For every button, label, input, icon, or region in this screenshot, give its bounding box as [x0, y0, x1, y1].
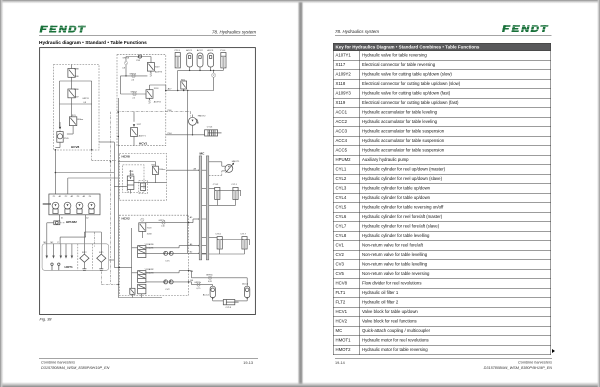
cylinder CYL6	[209, 233, 223, 249]
svg-text:ACC4: ACC4	[203, 293, 210, 296]
frame	[40, 48, 256, 315]
cylinder CYL1	[231, 184, 238, 199]
wire A6 line	[146, 245, 200, 248]
svg-text:2,5: 2,5	[132, 98, 136, 100]
valve RV1 relief	[67, 115, 84, 134]
svg-text:ACC2: ACC2	[197, 49, 204, 52]
svg-text:180bar: 180bar	[159, 169, 166, 171]
valve Y118 cartridge	[139, 218, 153, 238]
wire hcv8a ladder	[60, 77, 92, 104]
FENDT logo left	[39, 25, 89, 37]
motor HMOT1	[209, 161, 240, 175]
wire filter feeds	[84, 232, 114, 260]
svg-text:A109Y3: A109Y3	[155, 70, 163, 73]
svg-text:2,6: 2,6	[131, 80, 135, 82]
wire reel lift loop	[209, 190, 241, 205]
multicoupler MC	[190, 152, 209, 260]
orifice GRP1b 0,75	[194, 282, 201, 290]
wire reel foreaft loop	[209, 240, 250, 255]
filter FLT1	[97, 252, 106, 270]
svg-text:CYL7: CYL7	[240, 233, 246, 235]
filter FLT2	[80, 252, 89, 270]
tank HOT1	[42, 244, 109, 270]
valve Y186	[68, 65, 80, 78]
svg-text:CV1: CV1	[165, 260, 170, 262]
wire trunk P	[99, 142, 132, 267]
cylinder CYL8	[223, 300, 238, 310]
wire levelling loop	[212, 297, 249, 301]
wire AL7 line	[166, 90, 214, 91]
wire pump return	[60, 215, 86, 244]
svg-text:A109Y2: A109Y2	[154, 101, 162, 104]
svg-text:0,85: 0,85	[208, 281, 213, 283]
node A5	[188, 218, 200, 223]
svg-text:FLT1: FLT1	[99, 252, 104, 254]
node P04	[166, 133, 205, 135]
check valves CV2	[146, 280, 194, 291]
svg-text:A1: A1	[59, 195, 62, 198]
valve block HCV2	[119, 215, 188, 295]
flow arrow	[59, 127, 61, 130]
fitting under pump	[44, 215, 90, 244]
svg-text:AL7: AL7	[168, 88, 173, 91]
valve A107Y1	[131, 112, 147, 146]
check valves CV1	[146, 251, 200, 262]
cylinder CYL5	[205, 127, 222, 136]
svg-text:Y186: Y186	[74, 76, 80, 78]
accumulator ACC3	[208, 53, 214, 70]
key table	[333, 43, 551, 355]
svg-text:0,75: 0,75	[197, 288, 202, 290]
svg-text:X117: X117	[137, 124, 142, 126]
svg-text:P1: P1	[53, 196, 56, 198]
svg-text:HCV8: HCV8	[122, 155, 131, 159]
node P port	[119, 267, 121, 269]
valve RV3 relief	[152, 164, 166, 182]
svg-text:b1: b1	[61, 218, 64, 220]
orifice GRP on drop	[212, 70, 216, 90]
wire pilot drop	[101, 112, 118, 285]
svg-text:CYL8: CYL8	[226, 307, 232, 309]
pump unit HPUM2	[49, 194, 100, 224]
valve block HCV8 (left)	[54, 65, 100, 151]
node AL7	[165, 85, 172, 91]
cylinder CYL4	[221, 53, 226, 71]
svg-text:HOT1: HOT1	[65, 265, 74, 269]
orifice GRP18	[122, 57, 151, 76]
svg-text:Y118: Y118	[147, 227, 152, 229]
svg-text:GRP17: GRP17	[131, 92, 138, 94]
svg-text:P3: P3	[77, 196, 80, 198]
valve A282/A283 directional	[132, 268, 155, 282]
orifice GRP1b 0,85	[206, 274, 213, 283]
check valve CV8	[136, 55, 142, 62]
right footer	[335, 357, 552, 360]
valve RV6 relief	[181, 79, 187, 90]
svg-text:A3: A3	[83, 195, 86, 198]
wire feed manifold	[43, 149, 119, 205]
svg-text:CV2: CV2	[165, 289, 170, 291]
svg-text:MC: MC	[200, 152, 206, 156]
valve Y187	[68, 89, 90, 117]
wire P06 pilot line	[117, 110, 191, 117]
filter compartment	[78, 244, 93, 270]
svg-text:HCV2: HCV2	[122, 217, 131, 221]
accumulator ACC5	[242, 282, 250, 297]
svg-text:P4: P4	[89, 196, 92, 198]
wire trunk right	[187, 91, 189, 254]
wire A4 line	[146, 270, 194, 273]
wire hcv2 internal rail	[131, 228, 133, 288]
valve bottom stack	[138, 284, 146, 297]
svg-text:HMOT2: HMOT2	[198, 116, 206, 118]
svg-text:CYL5: CYL5	[207, 127, 213, 129]
wire trunk T	[118, 98, 162, 298]
svg-text:ACC1: ACC1	[186, 49, 193, 52]
svg-text:P2: P2	[65, 196, 68, 198]
valve A280/A281 directional	[132, 243, 155, 257]
svg-text:HMOT1: HMOT1	[232, 161, 240, 163]
svg-text:A5: A5	[190, 216, 193, 219]
svg-text:GRP1a: GRP1a	[159, 220, 166, 222]
svg-text:A2: A2	[71, 195, 74, 198]
wire B4 branch	[189, 282, 213, 286]
svg-text:CV8: CV8	[136, 60, 141, 62]
left footer	[39, 357, 258, 360]
svg-text:HCV8: HCV8	[71, 145, 80, 149]
svg-text:X268: X268	[147, 233, 153, 235]
svg-text:ACC3: ACC3	[207, 49, 214, 52]
svg-text:X286: X286	[74, 89, 80, 91]
svg-text:0,8: 0,8	[122, 67, 126, 69]
accumulator ACC2	[197, 53, 203, 70]
svg-text:CYL2: CYL2	[213, 184, 219, 186]
motor HMOT2	[189, 115, 207, 135]
svg-text:GRP11: GRP11	[82, 98, 89, 100]
svg-text:GRP16: GRP16	[130, 73, 137, 75]
svg-text:CYL1: CYL1	[231, 184, 237, 186]
svg-text:CYL3: CYL3	[174, 50, 180, 52]
breathers	[51, 263, 60, 270]
svg-text:A107Y1: A107Y1	[139, 134, 147, 137]
cylinder CYL2	[209, 184, 220, 199]
svg-text:X288: X288	[74, 69, 80, 71]
valve A109Y2	[146, 85, 166, 104]
wire accumulator bus	[178, 70, 224, 71]
svg-text:b2: b2	[86, 218, 89, 220]
svg-text:X118: X118	[154, 88, 159, 90]
page edges	[298, 0, 304, 387]
orifice GRP16	[121, 73, 148, 81]
cylinder CYL3	[175, 53, 180, 68]
schematic placeholder	[36, 44, 259, 319]
wire A4 branch	[189, 271, 248, 287]
svg-text:CYL4: CYL4	[220, 50, 226, 52]
valve A109Y3	[147, 57, 163, 77]
continuation arrow	[552, 349, 555, 353]
wire hcv8a exits	[60, 104, 92, 150]
flow divider FD8	[127, 170, 148, 194]
svg-text:CYL6: CYL6	[215, 233, 221, 235]
cylinder CYL7	[240, 233, 247, 249]
accumulator ACC4	[203, 286, 216, 298]
svg-text:HPUM2: HPUM2	[66, 220, 77, 224]
svg-text:ACC5: ACC5	[242, 282, 249, 285]
tank inlet arrows	[46, 244, 73, 258]
svg-text:HCV1: HCV1	[139, 142, 148, 146]
FENDT logo right	[502, 24, 552, 36]
svg-text:X119: X119	[155, 66, 160, 68]
valve block HCV8 (flow divider)	[119, 153, 166, 200]
svg-text:FD8: FD8	[130, 171, 135, 173]
wire bus-to-AL7 drop	[177, 70, 179, 90]
filter P105	[55, 130, 69, 147]
accumulator ACC1	[187, 53, 193, 70]
wire hcv8b lines	[114, 162, 200, 187]
orifice GRP1a	[146, 220, 189, 227]
svg-text:P105: P105	[64, 138, 70, 140]
svg-text:180bar: 180bar	[77, 119, 84, 121]
valve block HCV1	[117, 55, 166, 146]
orifice GRP17	[121, 76, 147, 100]
svg-text:Y187: Y187	[74, 96, 80, 98]
valve bottom-left	[130, 288, 135, 297]
svg-text:C10: C10	[161, 226, 166, 228]
